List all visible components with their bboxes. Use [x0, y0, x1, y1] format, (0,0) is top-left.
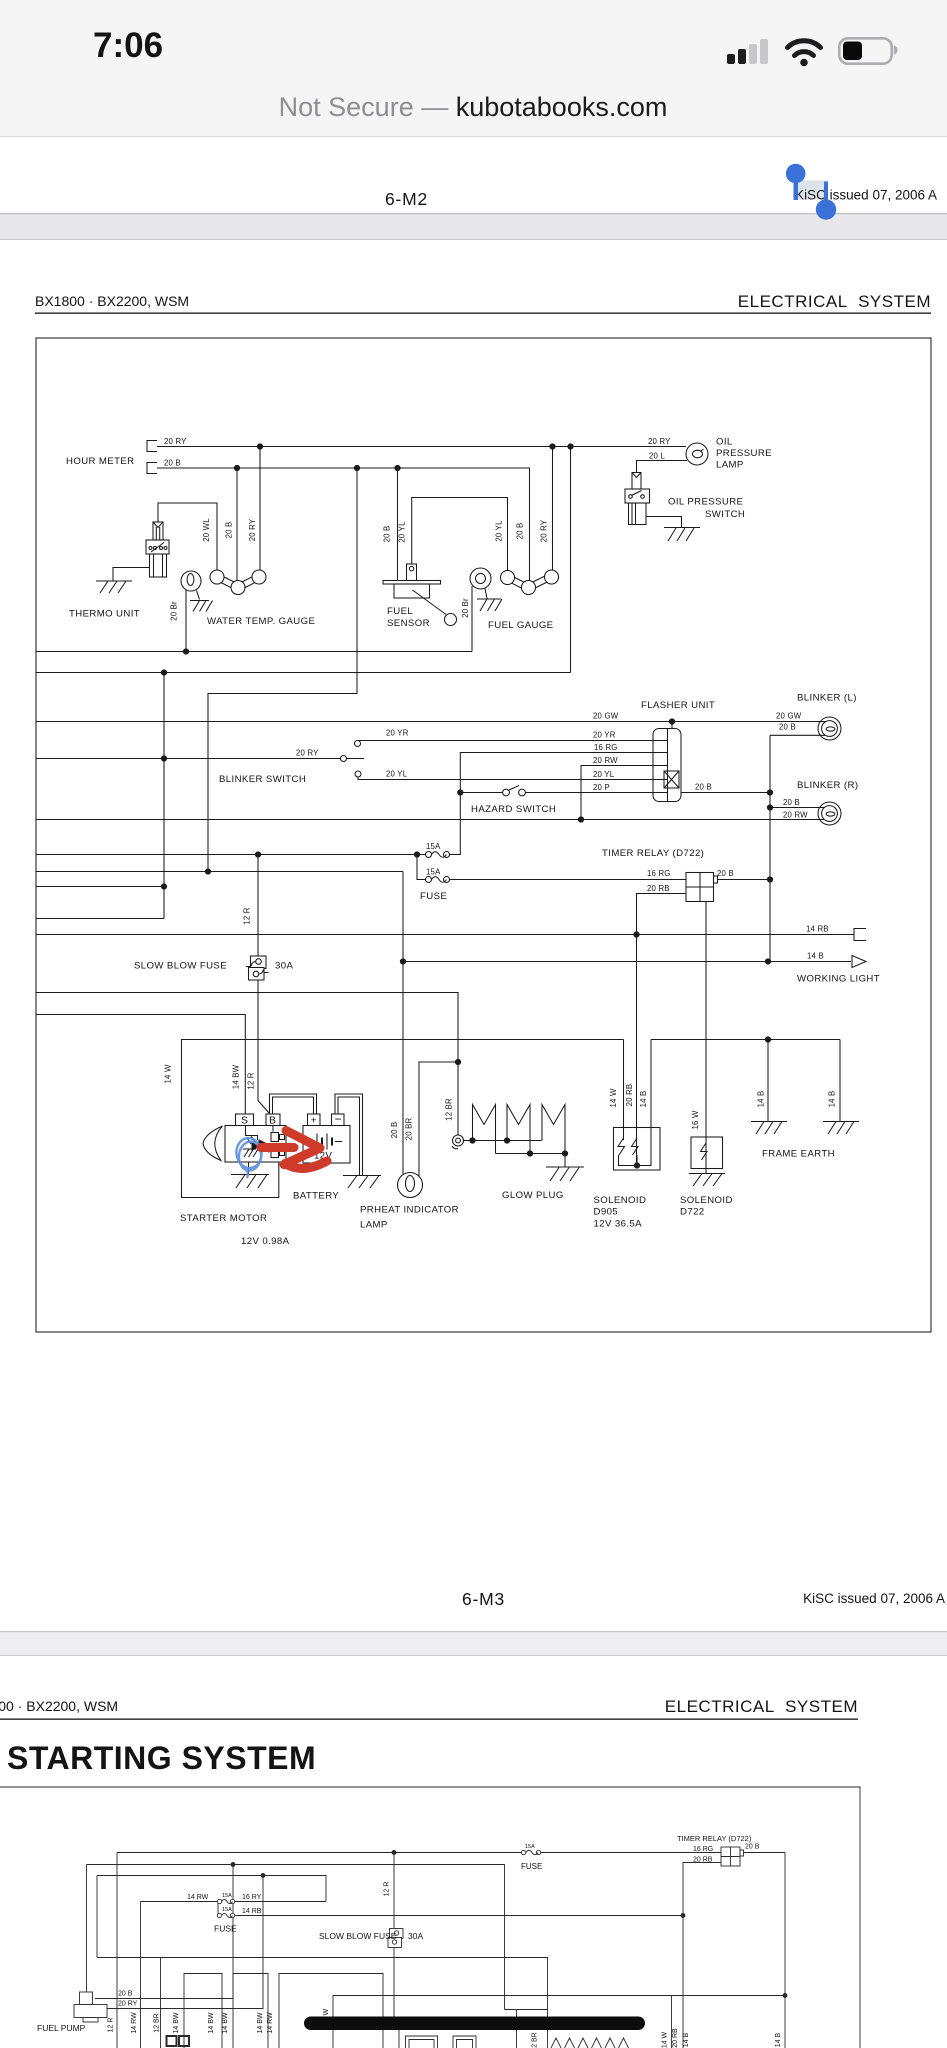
svg-text:6-M2: 6-M2 [385, 189, 428, 209]
svg-text:BATTERY: BATTERY [293, 1191, 339, 1202]
wire 20RY hour meter line [157, 446, 686, 448]
svg-text:14 RW: 14 RW [267, 2012, 274, 2034]
svg-text:STARTER MOTOR: STARTER MOTOR [180, 1213, 267, 1224]
svg-text:12V 36.5A: 12V 36.5A [594, 1219, 643, 1230]
svg-text:PRESSURE: PRESSURE [716, 448, 772, 459]
water temp gauge coil [210, 570, 266, 595]
box4 page2 [333, 1996, 785, 2048]
connector box2 page2 [233, 1974, 268, 2048]
svg-text:15A: 15A [426, 868, 441, 877]
svg-text:ELECTRICAL SYSTEM: ELECTRICAL SYSTEM [665, 1697, 858, 1716]
svg-text:15A: 15A [222, 1907, 232, 1913]
svg-text:14 B: 14 B [807, 952, 824, 961]
bus5 20RW [36, 817, 822, 822]
svg-text:SLOW BLOW FUSE: SLOW BLOW FUSE [134, 961, 227, 972]
svg-text:B: B [269, 1115, 276, 1127]
preheat indicator lamp [398, 1062, 459, 1198]
svg-text:14 W: 14 W [164, 1064, 173, 1083]
svg-text:SLOW BLOW FUSE: SLOW BLOW FUSE [319, 1931, 397, 1941]
redaction bar [304, 2017, 645, 2031]
svg-text:14 RW: 14 RW [187, 1894, 209, 1901]
glow plug coils page2 [551, 2038, 629, 2048]
connector box1 page2 [184, 1974, 222, 2048]
svg-text:20 P: 20 P [593, 783, 610, 792]
svg-text:14 BW: 14 BW [173, 2012, 180, 2033]
thermo unit [146, 503, 217, 577]
oil pressure switch [625, 473, 682, 528]
svg-text:KiSC issued 07, 2006 A: KiSC issued 07, 2006 A [795, 188, 937, 203]
wire fuel pump 20B [95, 1863, 235, 1999]
svg-text:20 B: 20 B [783, 798, 800, 807]
slow blow fuse 30A [246, 956, 269, 980]
bus2 [36, 670, 571, 675]
svg-text:15A: 15A [222, 1893, 232, 1899]
svg-text:14 BW: 14 BW [257, 2012, 264, 2033]
timer relay D722 [637, 873, 771, 1166]
blinker L [770, 717, 841, 740]
svg-text:OIL PRESSURE: OIL PRESSURE [668, 497, 743, 508]
svg-text:FRAME EARTH: FRAME EARTH [762, 1149, 835, 1160]
schematic border page2 [0, 1787, 860, 2048]
wire BW net [87, 1865, 505, 2010]
svg-text:20 RY: 20 RY [648, 437, 671, 446]
svg-text:20 Br: 20 Br [170, 601, 179, 621]
glow plug coils [464, 1105, 568, 1157]
svg-text:TIMER RELAY (D722): TIMER RELAY (D722) [602, 848, 704, 859]
wire 20B/14B right page2 [783, 1853, 787, 2048]
svg-text:20 B: 20 B [745, 1844, 760, 1851]
svg-text:20 B: 20 B [225, 522, 234, 539]
svg-text:20 RY: 20 RY [118, 2001, 138, 2008]
svg-text:12 R: 12 R [247, 1072, 256, 1089]
annotation red arrow [261, 1131, 327, 1169]
node RY-fuelgauge junction [550, 444, 555, 570]
svg-text:14 RB: 14 RB [806, 925, 829, 934]
svg-text:14 B: 14 B [639, 1091, 648, 1108]
fuse 15A pair page2 [141, 1899, 684, 2048]
ground (oil pressure switch) [664, 528, 700, 542]
svg-text:FUEL GAUGE: FUEL GAUGE [488, 620, 553, 631]
svg-text:14 BW: 14 BW [232, 1064, 241, 1089]
svg-text:D905: D905 [594, 1207, 619, 1218]
wire 20L [637, 461, 688, 473]
bus1 20Br [36, 649, 472, 654]
wire 12BR page2 [160, 1958, 162, 2048]
svg-text:20 RW: 20 RW [783, 811, 808, 820]
svg-text:15A: 15A [426, 842, 441, 851]
svg-text:14 BW: 14 BW [222, 2012, 229, 2033]
svg-text:BX1800 · BX2200, WSM: BX1800 · BX2200, WSM [35, 293, 189, 309]
svg-text:S: S [241, 1115, 248, 1127]
svg-text:OIL: OIL [716, 437, 733, 448]
svg-text:20 RW: 20 RW [593, 756, 618, 765]
svg-text:20 B: 20 B [695, 783, 712, 792]
svg-text:LAMP: LAMP [716, 460, 744, 471]
fuel gauge bulb [470, 568, 491, 652]
fuse 15A no2 [417, 855, 686, 883]
svg-text:STARTING SYSTEM: STARTING SYSTEM [7, 1740, 316, 1776]
bus8 [36, 886, 164, 888]
svg-text:20 RB: 20 RB [693, 1857, 713, 1864]
svg-text:20 WL: 20 WL [202, 518, 211, 542]
svg-text:20 RY: 20 RY [164, 437, 187, 446]
wire 20B hour meter line [157, 468, 530, 581]
svg-text:PRHEAT INDICATOR: PRHEAT INDICATOR [360, 1205, 459, 1216]
svg-text:6-M3: 6-M3 [462, 1589, 505, 1609]
svg-text:16 RY: 16 RY [242, 1894, 262, 1901]
svg-text:20 GW: 20 GW [776, 712, 802, 721]
svg-text:20 RB: 20 RB [672, 2028, 679, 2048]
svg-text:GLOW PLUG: GLOW PLUG [502, 1190, 564, 1201]
svg-text:−: − [335, 1112, 342, 1126]
blinker switch [341, 741, 654, 780]
wire fuel pump 20RY [107, 1874, 265, 2009]
fuel gauge coil [501, 570, 559, 595]
svg-text:FUSE: FUSE [420, 891, 447, 902]
ground (thermo unit) [96, 568, 150, 594]
svg-text:7:06: 7:06 [93, 26, 163, 65]
wire 20B flasher out [681, 790, 773, 795]
svg-text:12 BR: 12 BR [532, 2032, 539, 2048]
svg-text:12 R: 12 R [243, 907, 252, 924]
battery cable - to ground [335, 1094, 363, 1176]
wire 16RY net [97, 1876, 326, 1958]
bus11 14B working light [403, 956, 866, 968]
battery body [303, 1126, 350, 1164]
svg-text:20 Br: 20 Br [461, 598, 470, 618]
ground (solenoid D722) [689, 1174, 725, 1187]
hour meter connector stubs [147, 441, 157, 474]
frame earth 1 [751, 1040, 787, 1135]
wire 14BW [36, 1015, 245, 1115]
solenoid D905 [614, 1040, 661, 1171]
battery cable B to + [270, 1094, 317, 1114]
svg-text:16 RG: 16 RG [647, 869, 671, 878]
svg-text:BLINKER (R): BLINKER (R) [797, 780, 858, 791]
wire 12R slow blow page2 [394, 1853, 399, 2048]
svg-text:WATER TEMP. GAUGE: WATER TEMP. GAUGE [207, 616, 315, 627]
svg-text:20 YL: 20 YL [398, 521, 407, 543]
bus7 B-net [36, 869, 403, 874]
svg-text:FUEL PUMP: FUEL PUMP [37, 2023, 86, 2033]
oil pressure lamp [686, 443, 708, 465]
blinker R [770, 802, 841, 825]
solenoid D722 [691, 902, 723, 1174]
svg-text:SENSOR: SENSOR [387, 618, 430, 629]
wire 16RG top line with fuse 15A [117, 1850, 721, 2048]
ground (starter motor) [231, 1162, 269, 1188]
svg-text:SOLENOID: SOLENOID [594, 1195, 647, 1206]
svg-text:FUSE: FUSE [521, 1862, 542, 1871]
svg-text:FUEL: FUEL [387, 606, 413, 617]
svg-text:+: + [311, 1115, 317, 1127]
svg-text:ELECTRICAL SYSTEM: ELECTRICAL SYSTEM [738, 292, 931, 311]
svg-text:20 B: 20 B [516, 523, 525, 540]
node B-watertemp junction [234, 465, 239, 580]
node RY-bus2 junction [568, 444, 573, 673]
fuse 15A no1 [36, 852, 450, 858]
timer relay D722 page2 [681, 1847, 785, 2048]
bus3 20GW [36, 719, 823, 724]
node RY-watertemp junction [257, 444, 262, 570]
wire 12R slow blow [258, 855, 270, 1114]
svg-text:20 YR: 20 YR [386, 729, 409, 738]
svg-text:20 B: 20 B [164, 459, 181, 468]
hazard switch [460, 786, 653, 796]
svg-text:16 RG: 16 RG [594, 743, 618, 752]
svg-text:20 BR: 20 BR [405, 1117, 414, 1140]
svg-text:W: W [323, 2008, 330, 2015]
svg-text:14 B: 14 B [775, 2032, 782, 2047]
wire 14W page2 [671, 1996, 673, 2048]
big box top page2 [97, 1958, 548, 2010]
svg-text:Not Secure — kubotabooks.com: Not Secure — kubotabooks.com [279, 92, 668, 122]
svg-text:SOLENOID: SOLENOID [680, 1195, 733, 1206]
annotation blue circle [235, 1136, 264, 1178]
svg-text:20 B: 20 B [390, 1122, 399, 1139]
svg-text:20 GW: 20 GW [593, 712, 619, 721]
svg-text:20 RB: 20 RB [647, 884, 670, 893]
svg-text:14 B: 14 B [757, 1091, 766, 1108]
flasher unit [653, 722, 681, 802]
vertical 20B bus x770 [767, 735, 772, 962]
svg-text:30A: 30A [275, 961, 293, 972]
svg-text:14 BW: 14 BW [208, 2012, 215, 2033]
battery terminals + and - [308, 1114, 345, 1126]
box5 page2 [505, 2010, 548, 2048]
wire 16RG flasher [450, 753, 654, 855]
frame earth 2 [823, 1040, 859, 1135]
svg-text:14 B: 14 B [828, 1091, 837, 1108]
wire preheat 20B vertical [400, 872, 405, 1175]
svg-text:14 RB: 14 RB [242, 1908, 262, 1915]
svg-text:BLINKER (L): BLINKER (L) [797, 693, 857, 704]
svg-text:HAZARD SWITCH: HAZARD SWITCH [471, 804, 556, 815]
fuel sensor [383, 498, 508, 626]
svg-text:14 RW: 14 RW [131, 2012, 138, 2034]
bus9 [36, 918, 164, 920]
water temp gauge bulb [181, 571, 201, 652]
svg-text:20 YL: 20 YL [593, 770, 615, 779]
svg-text:20 YL: 20 YL [495, 520, 504, 542]
svg-text:20 B: 20 B [383, 526, 392, 543]
wire 20RW flasher [581, 766, 653, 820]
glow plug terminal [452, 1135, 464, 1149]
bus12 [36, 993, 461, 1136]
node B-fuelsensor-20B junction [395, 465, 400, 580]
svg-text:BX1800 · BX2200, WSM: BX1800 · BX2200, WSM [0, 1698, 118, 1714]
svg-text:20 RY: 20 RY [540, 519, 549, 542]
svg-text:14 B: 14 B [683, 2032, 690, 2047]
vertical RY tap x164 [161, 673, 166, 919]
svg-text:20 YL: 20 YL [386, 770, 408, 779]
svg-text:20 RB: 20 RB [625, 1084, 634, 1107]
svg-text:WORKING LIGHT: WORKING LIGHT [797, 974, 880, 985]
svg-text:20 B: 20 B [779, 723, 796, 732]
ground (fuel gauge) [477, 599, 502, 611]
slow blow fuse page2 [388, 1929, 403, 1948]
solenoid horizontal right segment [651, 1037, 840, 1042]
svg-text:20 RY: 20 RY [248, 518, 257, 541]
schematic border frame [36, 338, 931, 1332]
ground (battery) [343, 1176, 381, 1189]
svg-text:HOUR METER: HOUR METER [66, 456, 135, 467]
svg-text:14 W: 14 W [662, 2031, 669, 2048]
ground (water temp gauge) [190, 601, 213, 612]
svg-text:14 W: 14 W [609, 1088, 618, 1107]
node B-fuelsensor junction + stepped wire to bus7 [208, 465, 360, 871]
svg-text:20 L: 20 L [649, 452, 665, 461]
connector box3 page2 [279, 1974, 383, 2048]
starter motor body [203, 1126, 286, 1163]
svg-text:16 W: 16 W [691, 1110, 700, 1129]
bottom terminal squares page2 [167, 2036, 190, 2046]
starter 14W loop [182, 1040, 624, 1198]
svg-text:FLASHER UNIT: FLASHER UNIT [641, 700, 715, 711]
svg-text:12V 0.98A: 12V 0.98A [241, 1236, 290, 1247]
svg-text:20 B: 20 B [118, 1991, 133, 1998]
svg-text:30A: 30A [408, 1931, 423, 1941]
bus4 20RY blinker feed [36, 758, 341, 760]
svg-text:D722: D722 [680, 1207, 705, 1218]
svg-text:16 RG: 16 RG [693, 1846, 713, 1853]
svg-text:20 YR: 20 YR [593, 731, 616, 740]
bottom small boxes page2 [406, 2036, 477, 2048]
svg-text:SWITCH: SWITCH [705, 509, 745, 520]
svg-text:20 RY: 20 RY [296, 749, 319, 758]
svg-text:12 R: 12 R [108, 2018, 115, 2033]
starter motor terminals S and B [236, 1114, 281, 1126]
svg-text:12 BR: 12 BR [445, 1098, 454, 1121]
svg-text:KiSC issued 07, 2006 A: KiSC issued 07, 2006 A [803, 1591, 945, 1606]
svg-text:TIMER RELAY (D722): TIMER RELAY (D722) [677, 1834, 752, 1843]
svg-text:BLINKER SWITCH: BLINKER SWITCH [219, 774, 306, 785]
svg-text:12 BR: 12 BR [154, 2013, 161, 2032]
svg-text:20 B: 20 B [717, 869, 734, 878]
svg-text:15A: 15A [525, 1844, 535, 1850]
bus10 14RB [36, 929, 866, 941]
svg-text:FUSE: FUSE [214, 1924, 237, 1934]
svg-text:12 R: 12 R [384, 1882, 391, 1897]
svg-text:THERMO UNIT: THERMO UNIT [69, 609, 140, 620]
svg-text:LAMP: LAMP [360, 1220, 388, 1231]
ground (glow plug) [546, 1154, 584, 1182]
fuel pump [74, 1865, 107, 2023]
